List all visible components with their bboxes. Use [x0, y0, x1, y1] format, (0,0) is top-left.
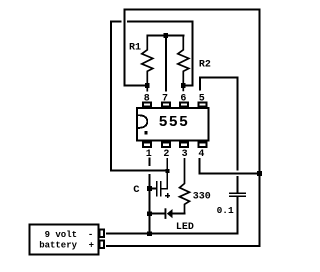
junction dot pin4/V+: [257, 171, 262, 176]
svg-text:C: C: [133, 184, 140, 196]
capacitor 0.1 top plate: [229, 192, 246, 194]
svg-text:1: 1: [146, 149, 152, 160]
svg-text:6: 6: [180, 93, 186, 104]
junction dot LED tap: [147, 211, 152, 216]
battery box: [30, 225, 99, 255]
IC pin box 4: [199, 143, 207, 148]
junction dot pin8/R1: [145, 83, 150, 88]
svg-text:330: 330: [193, 191, 211, 202]
op: IC 555 body: [137, 108, 209, 141]
svg-text:2: 2: [163, 149, 169, 160]
wire: outer right vertical (V+ rail down to battery +): [259, 9, 261, 248]
wire: pin 5 rail to 0.1 cap: [199, 77, 239, 79]
wire: pin 4 stub and rail to V+: [200, 158, 261, 174]
wire: LED right lead: [172, 213, 185, 215]
junction dot ground rail: [147, 232, 152, 237]
wire: left vertical (ground wire pin1/C/LED): [149, 174, 151, 235]
battery minus terminal: [99, 229, 104, 237]
junction dot pin1 rail / pin2 wire: [165, 169, 169, 173]
svg-text:8: 8: [144, 93, 150, 104]
IC pin box 2: [162, 143, 170, 148]
IC pin-1 marker dot: [144, 131, 147, 134]
capacitor C polarity plus sign: [165, 193, 170, 198]
wire: 0.1 cap upper vertical: [237, 77, 239, 171]
wire: capacitor C left lead: [150, 188, 157, 190]
wire: pin 1 ground rail: [110, 170, 168, 172]
IC pin box 3: [180, 143, 188, 148]
wire: +V top rail: [124, 9, 261, 11]
wire: battery plus rail: [106, 245, 261, 247]
svg-text:+: +: [89, 241, 94, 251]
resistor R2 body: [178, 35, 189, 92]
svg-text:555: 555: [159, 114, 190, 131]
capacitor C left plate: [156, 181, 158, 197]
wire: battery minus rail: [106, 233, 239, 235]
capacitor C right plate: [160, 181, 162, 197]
IC notch: [138, 115, 147, 128]
wire: 0.1 cap lower vertical: [237, 197, 239, 234]
wire: inner right vertical (top rail to pin 6): [192, 21, 194, 87]
IC pin box 7: [162, 103, 170, 107]
svg-text:0.1: 0.1: [217, 205, 234, 216]
wire: inner left vertical (top rail to pin 1): [110, 21, 112, 172]
svg-text:battery: battery: [39, 241, 77, 251]
svg-text:LED: LED: [176, 222, 194, 233]
wire: link pin 6 to inner right vertical: [183, 85, 193, 87]
wire: R1-R2 top rail: [146, 35, 184, 37]
svg-text:9 volt: 9 volt: [45, 230, 77, 240]
LED cathode bar: [165, 208, 167, 219]
IC pin box 8: [143, 103, 151, 107]
svg-text:4: 4: [198, 149, 204, 160]
wire: inner top rail right segment: [127, 21, 194, 23]
wire: link from left vertical to pin 8: [124, 85, 148, 87]
svg-text:3: 3: [182, 149, 188, 160]
svg-text:5: 5: [199, 93, 205, 104]
resistor 330 body (pin 3 to LED): [180, 158, 190, 215]
capacitor 0.1 bottom plate: [229, 195, 246, 197]
junction dot pin7/rail: [164, 33, 169, 38]
LED triangle: [167, 209, 173, 218]
IC pin box 6: [180, 103, 188, 107]
resistor R1 body: [142, 35, 153, 92]
svg-text:R2: R2: [199, 59, 211, 70]
svg-text:R1: R1: [129, 42, 141, 53]
svg-text:-: -: [88, 230, 93, 240]
wire: pin 1 stub: [149, 157, 151, 166]
junction dot C tap: [147, 186, 152, 191]
svg-text:7: 7: [162, 93, 168, 104]
wire: LED left lead: [150, 213, 165, 215]
wire: pin 7 wire: [165, 35, 167, 92]
wire: 0.1 cap mid vertical below crossing: [237, 176, 239, 193]
wire: outer left vertical (V+ to pin 8): [124, 9, 126, 87]
wire: pin 2 stub down to capacitor C: [161, 158, 167, 189]
battery plus terminal: [99, 240, 104, 248]
wire: inner top rail left segment: [110, 21, 122, 23]
junction dot pin6/R2: [181, 83, 186, 88]
wire: pin 5 stub: [199, 77, 201, 91]
IC pin box 5: [199, 103, 207, 107]
IC pin box 1: [143, 143, 151, 148]
